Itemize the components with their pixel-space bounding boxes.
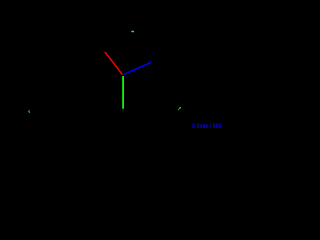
svg-text:X 5mm / 500: X 5mm / 500 [192,123,222,130]
marker: green diagonal bottom-right [178,107,181,110]
marker: green dash top [132,31,134,33]
marker: green chevron bottom-left [29,110,30,112]
node origin (axis junction) [0,0,1,1]
Y axis (blue) [123,62,151,74]
Z axis (green) [122,76,124,109]
X axis (red) [105,52,123,75]
